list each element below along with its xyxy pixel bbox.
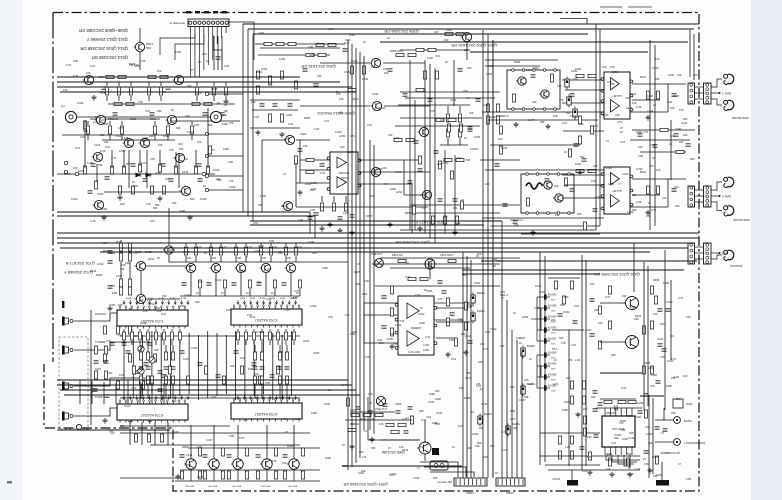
transistor Q304 — [370, 58, 381, 67]
resistor — [391, 430, 399, 433]
wire — [210, 243, 212, 246]
resistor — [448, 118, 456, 121]
svg-text:6.8K: 6.8K — [308, 45, 314, 49]
resistor — [240, 366, 243, 374]
pin — [557, 173, 560, 176]
transistor Q703 — [185, 263, 196, 272]
resistor — [642, 326, 645, 334]
wire — [195, 243, 197, 246]
svg-text:(2P PLUG CORD): (2P PLUG CORD) — [660, 451, 680, 454]
pin — [512, 108, 515, 111]
wire — [600, 398, 636, 400]
terminal bar 2 — [656, 480, 669, 486]
wire pin drop — [187, 395, 189, 399]
wire — [447, 138, 449, 145]
wire bus — [470, 51, 648, 53]
diode D501 — [136, 173, 140, 177]
svg-text:1/2W: 1/2W — [663, 281, 670, 285]
svg-text:0.022: 0.022 — [310, 304, 317, 308]
svg-text:100: 100 — [498, 137, 503, 141]
wire — [131, 329, 133, 331]
svg-text:0.022: 0.022 — [646, 432, 653, 436]
wire — [196, 82, 198, 86]
svg-text:B-EMG: B-EMG — [477, 310, 485, 313]
wire — [170, 335, 172, 398]
wire — [485, 65, 540, 67]
wire pin drop — [161, 395, 163, 399]
resistor R319 — [456, 32, 464, 35]
fuse box — [673, 399, 683, 408]
wire — [548, 469, 640, 471]
wire — [488, 119, 598, 121]
wire — [295, 163, 297, 207]
svg-text:R519: R519 — [163, 134, 170, 138]
tape1 inner connector — [688, 83, 695, 104]
svg-text:C214: C214 — [626, 106, 633, 110]
svg-text:1/2W: 1/2W — [286, 113, 293, 117]
wire — [299, 140, 301, 183]
wire bus — [539, 252, 541, 465]
svg-text:0.01: 0.01 — [295, 417, 301, 421]
svg-text:R305: R305 — [464, 396, 471, 400]
svg-text:2.2K: 2.2K — [247, 313, 253, 317]
op-amp IC801 — [395, 296, 437, 355]
svg-text:0.022: 0.022 — [77, 101, 84, 105]
svg-text:0.01: 0.01 — [650, 143, 656, 147]
phone jack L — [65, 111, 80, 122]
wire — [120, 335, 300, 337]
wire — [190, 273, 192, 296]
svg-text:330: 330 — [285, 308, 290, 312]
resistor — [284, 247, 287, 255]
capacitor — [150, 113, 155, 115]
capacitor — [278, 367, 283, 369]
svg-text:10K: 10K — [478, 360, 483, 364]
resistor — [146, 332, 149, 340]
svg-text:R305: R305 — [304, 116, 311, 120]
svg-text:220: 220 — [649, 164, 654, 168]
ground — [530, 230, 535, 235]
resistor — [301, 471, 304, 479]
svg-text:0.022: 0.022 — [602, 113, 609, 117]
svg-text:1K: 1K — [519, 341, 522, 345]
svg-text:220: 220 — [653, 312, 658, 316]
switch — [573, 107, 577, 120]
wire — [165, 385, 167, 399]
svg-text:C214: C214 — [291, 296, 298, 300]
svg-text:B-3M: B-3M — [181, 298, 186, 300]
wire — [225, 82, 227, 86]
tape1 RCA rec — [724, 100, 734, 110]
resistor — [570, 381, 573, 389]
svg-text:220: 220 — [243, 418, 248, 422]
resistor — [351, 413, 359, 416]
wire pin — [631, 447, 633, 455]
capacitor — [139, 367, 144, 369]
resistor — [582, 381, 585, 389]
resistor — [420, 277, 428, 280]
transistor Q203 — [542, 181, 552, 189]
wire — [600, 341, 625, 343]
svg-text:22K: 22K — [139, 298, 144, 302]
svg-text:10K: 10K — [63, 88, 68, 92]
pin — [522, 69, 525, 72]
capacitor — [257, 283, 262, 285]
svg-text:6.8K: 6.8K — [364, 279, 370, 283]
resistor — [147, 434, 150, 442]
IC704 HA12017 — [231, 399, 302, 422]
svg-text:0.047: 0.047 — [187, 130, 194, 134]
capacitor — [108, 286, 113, 288]
svg-text:100K: 100K — [390, 187, 396, 191]
svg-text:0.01: 0.01 — [670, 134, 676, 138]
svg-text:R305: R305 — [287, 444, 294, 448]
svg-text:6.8K: 6.8K — [350, 332, 356, 336]
wire — [155, 329, 157, 331]
ground — [349, 444, 354, 449]
svg-text:2.2K: 2.2K — [458, 424, 464, 428]
svg-text:220: 220 — [379, 411, 384, 415]
wire — [216, 333, 218, 396]
svg-text:1/2W: 1/2W — [162, 74, 169, 78]
wire — [179, 341, 181, 345]
wire — [197, 335, 199, 400]
svg-text:4.7K: 4.7K — [222, 246, 227, 249]
wire — [424, 467, 466, 477]
resistor — [298, 280, 301, 288]
svg-text:FUSE: FUSE — [686, 403, 693, 406]
svg-text:560: 560 — [172, 399, 177, 403]
svg-text:0.022: 0.022 — [191, 346, 198, 350]
coil symbol — [526, 183, 543, 189]
wire — [163, 383, 165, 404]
svg-text:330: 330 — [683, 117, 688, 121]
capacitor — [88, 191, 93, 193]
svg-text:6.8K: 6.8K — [534, 306, 540, 310]
resistor — [454, 338, 457, 346]
resistor — [578, 116, 581, 124]
svg-text:1K: 1K — [196, 292, 199, 295]
resistor — [436, 118, 444, 121]
wire — [220, 256, 222, 262]
capacitor — [674, 134, 679, 136]
capacitor — [105, 177, 110, 179]
wire bus — [487, 34, 489, 478]
svg-text:6.8K: 6.8K — [112, 291, 118, 295]
resistor — [153, 354, 156, 362]
resistor — [386, 423, 394, 426]
wire — [290, 331, 292, 396]
svg-text:4.7K: 4.7K — [605, 295, 611, 299]
svg-text:C214: C214 — [630, 92, 637, 96]
resistor — [128, 243, 131, 251]
wire — [279, 345, 281, 352]
wire — [711, 202, 722, 211]
svg-text:C801 10/16: C801 10/16 — [440, 254, 454, 257]
resistor — [446, 114, 449, 122]
tape1 RCA play — [724, 74, 734, 84]
dad RCA rec — [724, 250, 734, 260]
pin — [568, 173, 571, 176]
svg-text:0.022: 0.022 — [636, 167, 643, 171]
svg-text:AN6551: AN6551 — [410, 326, 421, 330]
svg-text:100K: 100K — [610, 411, 616, 415]
resistor — [558, 436, 561, 444]
wire — [482, 111, 604, 113]
wire bus — [57, 429, 170, 431]
svg-text:560: 560 — [489, 64, 494, 68]
transistor Q706 — [260, 263, 271, 272]
svg-text:47K: 47K — [118, 303, 123, 307]
svg-text:1K: 1K — [224, 103, 227, 107]
svg-text:10K: 10K — [459, 386, 464, 390]
svg-text:0.01: 0.01 — [253, 221, 259, 225]
svg-text:1K: 1K — [342, 443, 345, 447]
transistor Q512 — [139, 138, 150, 147]
svg-text:1K: 1K — [471, 410, 474, 414]
wire pin drop — [294, 300, 296, 304]
svg-text:IC301: IC301 — [340, 176, 347, 180]
svg-text:1/2W: 1/2W — [258, 31, 265, 35]
resistor — [350, 66, 353, 74]
svg-text:1K: 1K — [387, 36, 390, 40]
wire — [118, 96, 120, 101]
wire — [358, 159, 420, 161]
svg-text:0.047: 0.047 — [519, 398, 526, 402]
svg-text:1/2W: 1/2W — [648, 366, 655, 370]
svg-text:100: 100 — [607, 453, 612, 457]
ground — [91, 95, 96, 100]
capacitor — [171, 367, 176, 369]
capacitor — [495, 164, 500, 166]
wire — [459, 138, 461, 145]
svg-text:2SC2458: 2SC2458 — [232, 486, 242, 488]
wire — [141, 422, 143, 445]
svg-text:1K: 1K — [185, 157, 188, 161]
svg-text:1/2W: 1/2W — [387, 337, 394, 341]
capacitor — [655, 427, 660, 429]
capacitor — [320, 164, 325, 166]
transistor Q315 — [284, 135, 295, 144]
wire — [171, 341, 173, 345]
wire pin drop — [256, 395, 258, 399]
capacitor — [207, 283, 212, 285]
wire — [260, 243, 262, 246]
svg-text:330: 330 — [157, 109, 162, 113]
wire — [213, 35, 222, 62]
wire bus — [581, 255, 583, 470]
svg-text:0.022: 0.022 — [256, 330, 263, 334]
svg-text:4.7K: 4.7K — [284, 137, 290, 141]
pin — [543, 69, 546, 72]
svg-text:220: 220 — [573, 77, 578, 81]
svg-text:22K: 22K — [303, 144, 308, 148]
resistor — [608, 286, 611, 294]
capacitor — [442, 291, 447, 293]
resistor — [198, 471, 201, 479]
wire — [213, 82, 215, 86]
resistor — [496, 104, 499, 112]
wire — [130, 96, 132, 101]
svg-text:6.8K: 6.8K — [526, 68, 532, 72]
capacitor — [203, 455, 208, 457]
resistor — [598, 341, 601, 349]
capacitor — [144, 363, 149, 365]
svg-text:220: 220 — [693, 73, 698, 77]
svg-text:0.022: 0.022 — [652, 66, 659, 70]
capacitor C506 — [166, 87, 171, 89]
wire — [630, 206, 668, 208]
wire pin drop — [275, 395, 277, 399]
wire — [148, 82, 150, 86]
transistor Q306 — [418, 127, 429, 136]
svg-text:1K: 1K — [157, 256, 160, 260]
resistor — [103, 354, 106, 362]
wire bus — [599, 29, 601, 226]
svg-text:330: 330 — [388, 133, 393, 137]
resistor — [554, 281, 557, 289]
resistor — [150, 186, 153, 194]
ground — [117, 195, 122, 200]
wire bus — [600, 372, 642, 374]
wire — [210, 256, 212, 262]
capacitor — [468, 341, 473, 343]
wire — [175, 480, 320, 482]
wire — [188, 333, 190, 394]
resistor — [192, 102, 200, 105]
capacitor — [662, 349, 667, 351]
svg-text:330: 330 — [371, 446, 376, 450]
capacitor — [382, 326, 387, 328]
svg-text:2SC2458: 2SC2458 — [208, 486, 218, 488]
svg-text:2.2K: 2.2K — [636, 200, 642, 204]
svg-text:100K: 100K — [196, 91, 202, 95]
capacitor — [234, 351, 239, 353]
wire bus — [243, 23, 699, 25]
svg-text:R305: R305 — [635, 314, 642, 318]
resistor — [146, 352, 149, 360]
ground — [337, 228, 342, 233]
wire — [225, 27, 227, 34]
wire — [695, 258, 704, 260]
capacitor — [513, 221, 518, 223]
capacitor — [273, 104, 278, 106]
resistor — [416, 88, 424, 91]
svg-text:1K: 1K — [217, 101, 220, 105]
wire bus — [424, 60, 426, 233]
svg-text:B-EMG: B-EMG — [512, 423, 520, 426]
capacitor — [308, 217, 313, 219]
transistor Q705 — [235, 263, 246, 272]
ground — [127, 418, 132, 423]
wire bus — [314, 216, 316, 238]
ground — [645, 210, 650, 215]
svg-text:0.022: 0.022 — [335, 130, 342, 134]
wire — [188, 447, 320, 449]
svg-text:C214: C214 — [628, 436, 635, 440]
wire — [380, 439, 419, 441]
wire — [172, 385, 174, 399]
capacitor — [644, 394, 649, 396]
jack aux — [62, 412, 73, 421]
resistor — [294, 247, 297, 255]
svg-text:47K: 47K — [350, 134, 355, 138]
wire bus — [380, 41, 688, 43]
resistor — [583, 428, 586, 436]
resistor — [164, 376, 167, 384]
wire pin drop — [237, 395, 239, 399]
capacitor — [598, 403, 603, 405]
resistor — [446, 298, 449, 306]
svg-text:6.8K: 6.8K — [197, 445, 203, 449]
wire — [320, 62, 370, 64]
resistor — [119, 253, 122, 261]
svg-text:100: 100 — [602, 65, 607, 69]
wire — [521, 233, 600, 235]
switch contact — [537, 338, 550, 343]
resistor — [618, 400, 626, 403]
wire — [253, 335, 255, 396]
wire tick — [213, 11, 218, 13]
resistor — [274, 471, 277, 479]
svg-text:100K: 100K — [423, 348, 429, 352]
svg-text:1/2W: 1/2W — [311, 181, 318, 185]
svg-text:47K: 47K — [371, 65, 376, 69]
svg-text:10K: 10K — [237, 257, 242, 260]
resistor — [570, 396, 573, 404]
svg-text:HA1457: HA1457 — [612, 189, 622, 193]
svg-text:CN901: CN901 — [465, 491, 474, 495]
svg-text:1K: 1K — [364, 429, 367, 433]
svg-text:100: 100 — [683, 374, 688, 378]
svg-text:2.2K: 2.2K — [118, 333, 124, 337]
svg-text:1K: 1K — [471, 304, 474, 308]
capacitor — [418, 169, 423, 171]
resistor — [301, 448, 304, 456]
wire — [571, 470, 573, 480]
svg-text:Q505~Q508 2SC2458 GR: Q505~Q508 2SC2458 GR — [79, 28, 128, 33]
svg-text:100: 100 — [185, 114, 190, 118]
transistor Q517 — [93, 200, 104, 209]
svg-text:10K: 10K — [73, 166, 78, 170]
wire — [695, 201, 704, 203]
pin — [526, 173, 529, 176]
resistor — [256, 471, 259, 479]
resistor — [608, 458, 611, 466]
svg-text:560: 560 — [146, 46, 151, 50]
capacitor — [396, 411, 401, 413]
svg-text:B-2M: B-2M — [240, 298, 245, 300]
svg-text:1K: 1K — [513, 311, 516, 315]
svg-text:0.047: 0.047 — [313, 351, 320, 355]
resistor — [446, 129, 449, 137]
resistor — [94, 371, 97, 379]
resistor — [86, 126, 89, 134]
svg-text:0.022: 0.022 — [535, 284, 542, 288]
svg-text:Q702: Q702 — [148, 302, 155, 306]
svg-text:0.047: 0.047 — [474, 281, 481, 285]
wire — [229, 22, 254, 60]
wire — [129, 422, 131, 445]
svg-text:1K: 1K — [171, 108, 174, 112]
resistor — [194, 247, 197, 255]
wire pin drop — [148, 300, 150, 304]
capacitor C505 — [102, 87, 107, 89]
svg-text:B-10MG: B-10MG — [548, 375, 557, 377]
svg-text:1/2W: 1/2W — [184, 293, 191, 297]
capacitor — [232, 283, 237, 285]
ground — [175, 474, 180, 479]
